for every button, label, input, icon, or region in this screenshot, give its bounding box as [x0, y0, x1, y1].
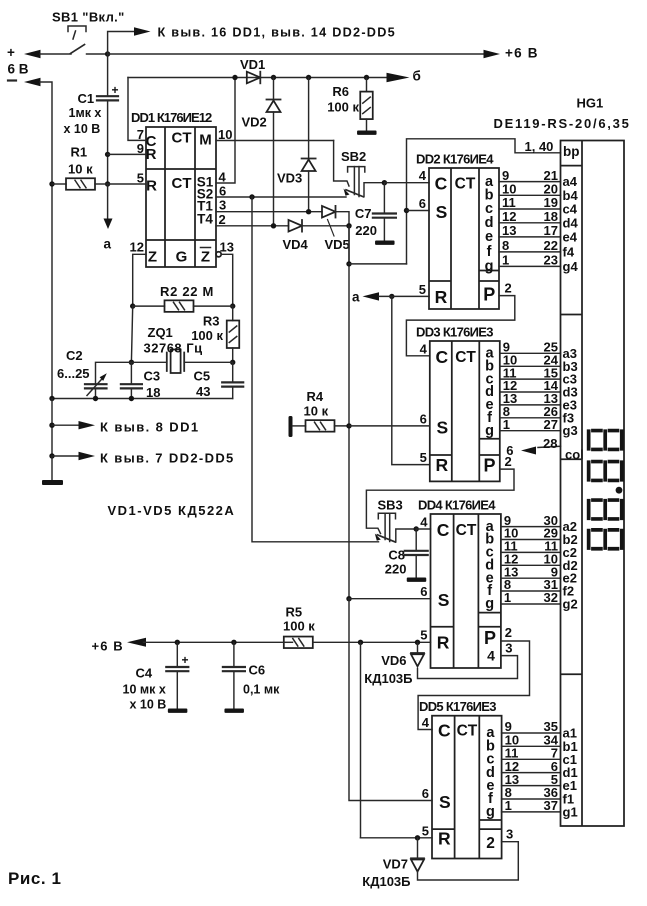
svg-text:5: 5 — [422, 823, 429, 838]
svg-text:G: G — [176, 249, 188, 266]
arrow K vyv 7 — [79, 452, 96, 460]
node: VD3 top — [306, 75, 311, 80]
wire: node to C7 — [383, 183, 385, 214]
svg-text:4: 4 — [219, 170, 227, 185]
svg-text:CT: CT — [456, 522, 477, 539]
wire: SB2 right contact — [364, 183, 384, 197]
wire: DD5 c to HG1 — [502, 758, 561, 760]
svg-text:К выв. 7 DD2-DD5: К выв. 7 DD2-DD5 — [100, 451, 235, 466]
svg-text:CT: CT — [172, 130, 192, 147]
diode VD6 — [411, 653, 424, 666]
svg-text:6: 6 — [420, 584, 427, 599]
wire: node to DD1 pin9 — [108, 153, 146, 155]
svg-text:8: 8 — [502, 238, 509, 253]
wire: DD4 c to HG1 — [501, 551, 561, 553]
wire: down to a arrow — [107, 184, 109, 220]
node: DD2 S line — [404, 208, 409, 213]
svg-text:R: R — [438, 828, 451, 848]
capacitor C4 — [166, 667, 188, 671]
svg-text:12: 12 — [130, 240, 144, 255]
ground C7 — [375, 241, 395, 245]
svg-text:13: 13 — [220, 240, 234, 255]
wire: R6 to ground — [366, 119, 368, 130]
svg-text:6: 6 — [420, 411, 427, 426]
capacitor C1 — [97, 96, 118, 100]
svg-text:Рис. 1: Рис. 1 — [8, 869, 61, 888]
svg-text:VD1: VD1 — [240, 57, 265, 72]
wire: rail2 to VD2 — [273, 78, 275, 100]
node: VD1 anode — [232, 75, 237, 80]
ground C8 — [407, 578, 427, 582]
wire: C7 to ground — [383, 218, 385, 241]
wire: net A vertical — [348, 226, 350, 599]
svg-text:6: 6 — [219, 184, 226, 199]
wire: R3 to ZQ1 line — [232, 348, 234, 362]
svg-text:10 мк х: 10 мк х — [123, 683, 166, 697]
wire: DD1 pin12 to R2 left — [133, 254, 146, 306]
node: DD2 R branch — [389, 294, 394, 299]
wire: into DD2 pin6 S — [407, 210, 430, 212]
svg-text:C: C — [435, 174, 448, 194]
svg-text:T4: T4 — [197, 212, 213, 227]
svg-text:27: 27 — [544, 417, 558, 432]
svg-text:P: P — [483, 456, 495, 476]
wire: DD2 a to HG1 — [499, 181, 561, 183]
wire: node to VD6 — [417, 642, 419, 653]
svg-text:18: 18 — [544, 209, 558, 224]
wire: R5 net down to DD5 R — [360, 642, 362, 838]
wire: branch to K vyv.16 — [108, 32, 134, 55]
wire: DD3 P pin2 carry to SB3 left contact — [366, 469, 514, 533]
node: S2 branch — [249, 194, 254, 199]
node: minus rail / R1 — [49, 181, 54, 186]
wire: +6V to SB1 contact — [40, 53, 71, 55]
node: DD4 C / C8 — [414, 526, 419, 531]
wire: DD1 M pin10 to SB2 — [216, 140, 334, 142]
wire: DD1 T1 pin3 to VD5 — [216, 211, 322, 213]
svg-text:g: g — [485, 596, 494, 612]
svg-text:R: R — [435, 287, 448, 307]
counter DD5 К176ИЕ3 — [432, 716, 502, 859]
diode VD4 — [289, 220, 303, 232]
resistor R6 — [360, 92, 373, 120]
svg-text:+: + — [182, 653, 189, 667]
svg-text:3: 3 — [219, 198, 226, 213]
colon wire from HG1 pin 28 — [538, 446, 561, 447]
wire: VD3 to T1 line — [308, 171, 310, 212]
wire: DD3 f to HG1 — [500, 417, 561, 419]
svg-text:R3: R3 — [203, 314, 220, 329]
svg-text:C1: C1 — [78, 91, 95, 106]
wire: DD2 c to HG1 — [499, 208, 561, 210]
node: net A to DD2 S — [346, 261, 351, 266]
ground C4 — [168, 709, 188, 713]
svg-text:VD3: VD3 — [277, 171, 302, 186]
svg-text:f4: f4 — [563, 244, 575, 259]
wire: C1 to pin5 node — [107, 100, 109, 184]
node: VD7 cathode — [415, 835, 420, 840]
diode VD1 — [247, 72, 260, 84]
svg-text:R6: R6 — [332, 84, 349, 99]
svg-text:C: C — [438, 721, 451, 741]
arrow colon to pin6 — [521, 447, 536, 455]
capacitor C5 — [222, 382, 243, 386]
svg-text:4: 4 — [487, 648, 495, 664]
svg-text:+6 В: +6 В — [92, 639, 124, 654]
svg-text:28: 28 — [543, 436, 557, 451]
wire: R2 right to R3 — [232, 306, 234, 320]
svg-text:C8: C8 — [388, 548, 405, 563]
wire: to pin7 arrow — [52, 455, 79, 457]
node: pin5 / R1 / a-net — [105, 181, 110, 186]
svg-text:4: 4 — [422, 715, 430, 730]
svg-text:R2 22 М: R2 22 М — [160, 284, 214, 299]
counter DD4 К176ИЕ4 — [431, 514, 501, 668]
svg-text:+: + — [7, 45, 15, 60]
svg-text:1мк х: 1мк х — [69, 106, 102, 120]
wire: to C4 — [176, 642, 178, 667]
svg-text:g: g — [485, 423, 494, 439]
wire: DD3 e to HG1 — [500, 404, 561, 406]
svg-text:Z: Z — [148, 249, 157, 266]
wire: DD4 pin3 to VD6 anode — [418, 656, 518, 679]
svg-text:P: P — [484, 628, 496, 648]
svg-text:VD1-VD5 КД522А: VD1-VD5 КД522А — [108, 503, 236, 518]
svg-text:6: 6 — [419, 196, 426, 211]
svg-text:1: 1 — [502, 253, 509, 268]
ground C6 — [224, 709, 244, 713]
capacitor C2 variable — [85, 384, 107, 388]
wire: R2 left down to ZQ1 line — [131, 306, 132, 362]
wire: net A to DD4 pin6 S — [349, 598, 431, 600]
svg-text:C5: C5 — [194, 369, 211, 384]
svg-text:CT: CT — [455, 349, 476, 366]
capacitor C3 — [121, 384, 142, 388]
svg-text:2: 2 — [505, 281, 512, 296]
svg-text:6: 6 — [422, 786, 429, 801]
wire: DD1 S2 pin6 to SB2 blade — [216, 196, 346, 198]
arrow +6V bottom — [127, 638, 146, 647]
node: C2 bottom — [93, 396, 98, 401]
node: R5 net to DD5 R — [358, 640, 363, 645]
svg-text:ZQ1: ZQ1 — [148, 325, 173, 340]
wire: to C6 — [233, 642, 235, 667]
svg-text:10 к: 10 к — [68, 162, 93, 177]
pushbutton SB2 — [344, 167, 365, 197]
svg-text:g2: g2 — [563, 597, 578, 612]
node: VD1 cathode / VD2 — [271, 75, 276, 80]
R4 free terminal — [289, 416, 293, 437]
wire: DD2 P pin2 carry to DD3 C — [406, 296, 514, 356]
svg-text:5: 5 — [419, 282, 426, 297]
svg-text:+6 В: +6 В — [505, 46, 539, 61]
wire: DD3 d to HG1 — [500, 391, 561, 393]
svg-text:SB1 "Вкл.": SB1 "Вкл." — [52, 10, 125, 25]
wire: DD4 b to HG1 — [501, 539, 561, 541]
ground main — [42, 480, 63, 485]
node: T4/VD2 — [271, 223, 276, 228]
wire: VD4 to net A — [302, 225, 349, 227]
capacitor C6 — [223, 667, 245, 671]
node: K vyv 8 tap — [49, 423, 54, 428]
svg-text:220: 220 — [385, 562, 407, 577]
svg-text:DD2 К176ИЕ4: DD2 К176ИЕ4 — [416, 152, 494, 167]
svg-text:C4: C4 — [136, 666, 153, 681]
svg-text:37: 37 — [544, 798, 558, 813]
arrow a to DD2 R — [363, 292, 380, 300]
node: +6V junction at C1 — [105, 51, 110, 56]
svg-text:R1: R1 — [71, 145, 88, 160]
wire: R5 net to DD5 pin5 R — [361, 837, 433, 839]
svg-text:2: 2 — [486, 835, 495, 852]
svg-text:C7: C7 — [355, 206, 372, 221]
svg-text:VD6: VD6 — [381, 653, 406, 668]
wire: R5 to DD4 pin5 R — [313, 641, 431, 643]
svg-text:S: S — [436, 417, 448, 437]
svg-text:g1: g1 — [563, 804, 578, 819]
wire: junction to C1 — [107, 54, 109, 96]
svg-text:10 к: 10 к — [304, 404, 329, 419]
svg-text:2: 2 — [219, 212, 226, 227]
svg-text:VD5: VD5 — [325, 237, 350, 252]
resistor R1 — [66, 178, 95, 190]
svg-text:DD5 К176ИЕ3: DD5 К176ИЕ3 — [419, 699, 496, 714]
svg-text:R: R — [146, 146, 157, 163]
svg-text:18: 18 — [146, 385, 160, 400]
wire: node to C8 — [415, 529, 417, 551]
crystal ZQ1 32768 Hz — [167, 350, 184, 374]
svg-text:g4: g4 — [563, 259, 579, 274]
node: pin9 tap — [105, 152, 110, 157]
svg-text:5: 5 — [420, 450, 427, 465]
wire: R1 to node — [95, 183, 108, 185]
svg-text:R: R — [435, 455, 448, 475]
wire: DD2 b to HG1 — [499, 194, 561, 196]
wire: DD1 pin13 to R2 right — [221, 254, 233, 306]
svg-text:DD3 К176ИЕ3: DD3 К176ИЕ3 — [416, 325, 493, 340]
node: R6 top — [364, 75, 369, 80]
svg-text:C6: C6 — [249, 663, 266, 678]
svg-text:32: 32 — [544, 590, 558, 605]
svg-text:R: R — [146, 178, 157, 195]
wire: DD5 b to HG1 — [502, 745, 561, 747]
arrow a down — [104, 219, 113, 230]
wire: SB3 right contact to DD4 C — [396, 529, 416, 542]
svg-text:C3: C3 — [144, 369, 161, 384]
svg-text:22: 22 — [544, 238, 558, 253]
svg-text:C: C — [435, 347, 448, 367]
wire: R4 to net A — [335, 425, 350, 427]
wire: DD5 a to HG1 — [502, 732, 561, 734]
arrow to pin16 DD1 — [134, 27, 151, 35]
svg-text:a: a — [104, 237, 112, 252]
svg-text:х 10 В: х 10 В — [64, 122, 101, 136]
svg-text:e: e — [485, 229, 493, 245]
wire: DD1 T4 pin2 to VD4 — [216, 225, 289, 227]
wire: to pin8 arrow — [52, 424, 79, 426]
svg-text:100 к: 100 к — [283, 619, 315, 634]
arrow -6V terminal — [24, 78, 41, 86]
svg-text:12: 12 — [502, 209, 516, 224]
svg-text:DD4 К176ИЕ4: DD4 К176ИЕ4 — [418, 498, 496, 513]
counter DD3 К176ИЕ3 — [430, 341, 500, 481]
wire: a-net to DD2 pin5 R — [379, 295, 429, 297]
svg-text:e4: e4 — [563, 229, 578, 244]
wire: DD5 g to HG1 — [502, 811, 561, 813]
capacitor C8 — [405, 551, 428, 555]
wire: to R2 — [133, 305, 165, 307]
svg-text:6 В: 6 В — [8, 62, 29, 77]
svg-text:3: 3 — [506, 827, 513, 842]
resistor R5 — [284, 637, 313, 649]
HG1 colon dot — [616, 487, 623, 494]
diode VD5 — [322, 206, 336, 218]
wire: DD4 e to HG1 — [501, 577, 561, 579]
svg-text:S: S — [438, 590, 450, 610]
arrow K vyv 8 — [79, 421, 96, 429]
wire: C5 bottom — [232, 387, 234, 399]
counter DD2 К176ИЕ4 — [429, 168, 499, 309]
svg-text:c4: c4 — [563, 202, 578, 217]
node: T1/VD3 — [306, 209, 311, 214]
resistor R2 — [165, 300, 194, 312]
wire: minus rail down left side — [40, 82, 52, 399]
HG1 digit 2 — [587, 498, 624, 521]
diode VD3 — [302, 159, 316, 172]
wire: rail to R1 — [52, 183, 66, 185]
svg-text:КД103Б: КД103Б — [364, 671, 412, 686]
svg-text:g: g — [486, 804, 495, 820]
diode VD7 — [411, 858, 424, 871]
svg-text:g: g — [485, 259, 494, 275]
wire: VD2 to T4 line — [273, 112, 275, 226]
wire: C3 bottom — [130, 388, 132, 398]
wire: DD3 c to HG1 — [500, 378, 561, 380]
arrow +6V right — [484, 50, 501, 58]
wire: rail2 left end to DD1 pin7 — [128, 78, 146, 141]
wire: rail2 to DD1 S1 pin4 — [216, 78, 235, 184]
svg-text:DE119-RS-20/6,35: DE119-RS-20/6,35 — [494, 116, 631, 131]
wire: +6V rail to right — [108, 53, 483, 55]
svg-text:S: S — [439, 792, 451, 812]
svg-text:CT: CT — [172, 175, 192, 192]
node: net A / R4 / DD3 S — [346, 423, 351, 428]
wire: VD5 to net A — [336, 212, 350, 264]
wire: a-net down to DD3 R — [392, 296, 430, 464]
wire: DD4 f to HG1 — [501, 590, 561, 592]
svg-text:bp: bp — [563, 144, 580, 159]
wire: C2 bottom — [95, 388, 97, 398]
svg-text:32768 Гц: 32768 Гц — [144, 341, 203, 356]
wire: DD5 d to HG1 — [502, 772, 561, 774]
wire: node to C5 — [232, 362, 234, 382]
wire: R5 left lead stub — [284, 641, 293, 643]
wire: M line to SB2 left contact — [334, 141, 349, 187]
wire: S2 net down to SB3 blade — [252, 197, 379, 542]
pushbutton SB1 — [68, 26, 86, 32]
svg-text:a: a — [352, 290, 360, 305]
svg-text:1: 1 — [504, 590, 511, 605]
node: VD6 cathode — [415, 640, 420, 645]
svg-text:100 к: 100 к — [327, 100, 359, 115]
svg-text:К выв. 8 DD1: К выв. 8 DD1 — [100, 420, 200, 435]
capacitor C7 — [373, 214, 396, 218]
wire: DD4 P pin2 carry to DD5 C — [418, 641, 529, 730]
node: rail corner — [49, 396, 54, 401]
svg-text:10: 10 — [218, 127, 232, 142]
svg-text:M: M — [199, 132, 212, 149]
svg-text:3: 3 — [505, 641, 512, 656]
wire: DD5 e to HG1 — [502, 785, 561, 787]
wire: node to DD1 pin5 — [108, 183, 146, 185]
wire: C4 to ground — [176, 671, 178, 708]
svg-text:C2: C2 — [66, 348, 83, 363]
HG1 digit 4 (top) — [587, 429, 624, 452]
node: K vyv 7 tap — [49, 453, 54, 458]
node: R2 right — [230, 303, 235, 308]
wire: rail to ground — [51, 456, 53, 480]
DD1 pin13 inversion bubble — [216, 252, 221, 257]
svg-text:0,1 мк: 0,1 мк — [243, 683, 280, 697]
wire: DD3 b to HG1 — [500, 365, 561, 367]
svg-text:C: C — [437, 520, 450, 540]
wire: DD2 S riser and HG1 bp wire — [407, 139, 561, 264]
wire: to DD2 pin4 C — [384, 182, 429, 184]
svg-text:HG1: HG1 — [577, 96, 604, 111]
resistor R3 — [227, 321, 240, 349]
svg-text:КД103Б: КД103Б — [362, 874, 410, 889]
wire: DD3 a to HG1 — [500, 352, 561, 354]
svg-text:2: 2 — [505, 625, 512, 640]
node: R2 left — [130, 303, 135, 308]
minus terminal mark — [8, 79, 16, 81]
wire: DD3 g to HG1 — [500, 430, 561, 432]
svg-text:VD4: VD4 — [283, 237, 309, 252]
svg-text:d4: d4 — [563, 215, 579, 230]
wire: node to VD7 — [417, 838, 419, 859]
svg-text:g3: g3 — [563, 423, 578, 438]
resistor R4 — [306, 420, 335, 432]
svg-text:1: 1 — [503, 417, 510, 432]
svg-text:R4: R4 — [307, 389, 324, 404]
wire: SB1 to junction — [87, 53, 108, 55]
wire: C6 to ground — [233, 671, 235, 708]
wire: DD4 a to HG1 — [501, 526, 561, 528]
wire: R2 to node — [194, 305, 233, 307]
svg-text:5: 5 — [137, 171, 144, 186]
svg-text:CT: CT — [457, 723, 478, 740]
svg-text:VD2: VD2 — [242, 115, 267, 130]
svg-text:К выв. 16 DD1, выв. 14 DD2-DD5: К выв. 16 DD1, выв. 14 DD2-DD5 — [158, 26, 396, 40]
C2 arrow tip — [100, 373, 107, 381]
node: ZQ1 right — [230, 360, 235, 365]
HG1 digit 3 — [587, 460, 624, 483]
arrow b right — [387, 73, 410, 83]
HG1 digit 1 (bottom) — [587, 528, 624, 551]
wire: DD2 d to HG1 — [499, 222, 561, 224]
wire: ZQ1 right lead — [184, 361, 233, 363]
wire: node to C3 — [130, 362, 132, 384]
svg-text:+: + — [112, 83, 119, 97]
svg-text:17: 17 — [544, 223, 558, 238]
svg-text:4: 4 — [420, 341, 428, 356]
node: ZQ1 left — [129, 360, 134, 365]
svg-text:4: 4 — [419, 168, 427, 183]
wire: rail2 b-net — [128, 77, 394, 79]
wire: DD4 g to HG1 — [501, 603, 561, 605]
svg-text:DD1 К176ИЕ12: DD1 К176ИЕ12 — [131, 110, 212, 125]
wire: terminal to R4 — [293, 425, 306, 427]
